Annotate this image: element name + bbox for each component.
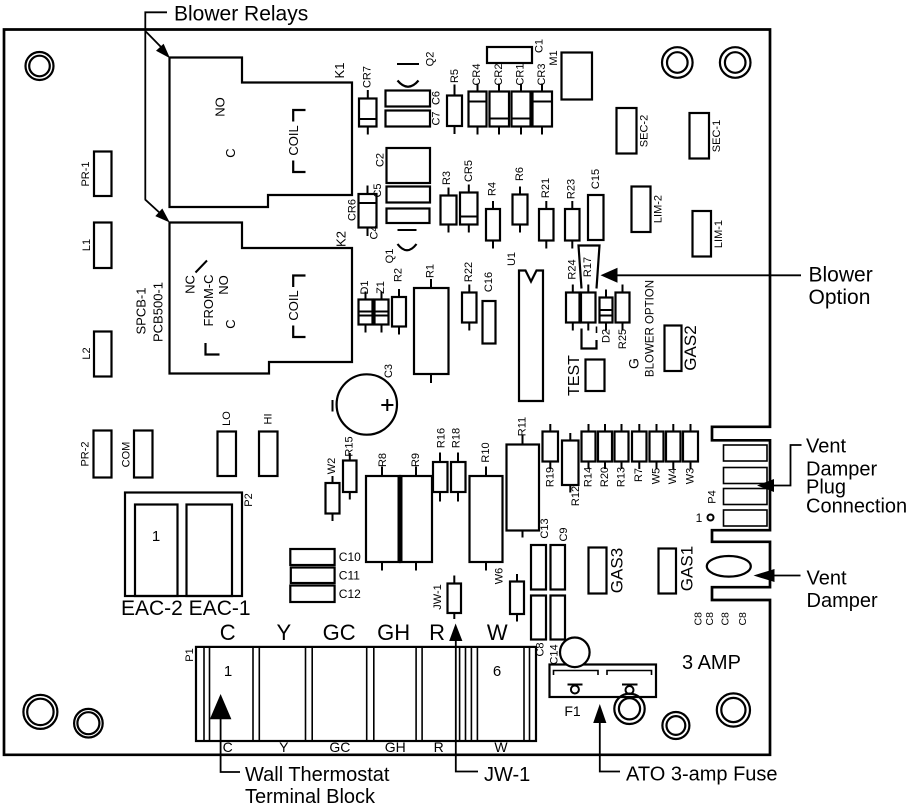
svg-text:SEC-1: SEC-1 [711, 120, 723, 152]
svg-text:COIL: COIL [286, 290, 301, 320]
transistor Q1 [384, 230, 417, 263]
svg-text:GH: GH [385, 739, 406, 755]
svg-text:Damper: Damper [807, 590, 878, 612]
capacitor C7 [386, 111, 443, 127]
capacitor C14 [549, 596, 566, 665]
resistor R2 [392, 268, 406, 335]
svg-text:R21: R21 [540, 178, 552, 198]
svg-text:C11: C11 [339, 569, 360, 583]
svg-text:PR-2: PR-2 [80, 441, 92, 466]
board outline with right-edge slots [4, 30, 770, 755]
svg-text:SEC-2: SEC-2 [639, 115, 651, 147]
svg-text:K2: K2 [334, 231, 349, 247]
svg-text:D1: D1 [359, 280, 371, 294]
capacitor C1 [487, 39, 546, 63]
svg-text:PCB500-1: PCB500-1 [151, 282, 166, 342]
connector LIM-1 [693, 211, 726, 257]
svg-text:GC: GC [329, 739, 350, 755]
svg-text:R17: R17 [582, 257, 594, 277]
svg-text:CR6: CR6 [347, 199, 359, 221]
capacitor C16 [483, 272, 496, 344]
test point TEST [566, 355, 605, 396]
svg-text:C: C [223, 148, 238, 157]
zener Z1 [375, 281, 389, 332]
svg-text:R24: R24 [567, 259, 579, 279]
connector COM [121, 431, 153, 478]
capacitor C12 [290, 586, 361, 603]
svg-text:R12: R12 [570, 486, 582, 506]
svg-text:6: 6 [493, 663, 501, 680]
svg-text:CR4: CR4 [471, 63, 483, 85]
svg-text:COIL: COIL [286, 125, 301, 155]
resistor R19 [543, 424, 559, 487]
svg-text:1: 1 [152, 528, 160, 545]
svg-text:EAC-2 EAC-1: EAC-2 EAC-1 [121, 597, 251, 620]
svg-text:C16: C16 [483, 272, 495, 292]
svg-text:LO: LO [221, 411, 233, 426]
svg-text:R3: R3 [441, 171, 453, 185]
svg-text:C15: C15 [590, 169, 602, 189]
svg-text:W3: W3 [685, 468, 697, 485]
silkscreen SPCB-1 PCB500-1 [134, 282, 166, 342]
svg-text:C8: C8 [704, 612, 716, 626]
svg-text:JW-1: JW-1 [484, 764, 530, 786]
svg-text:C5: C5 [372, 183, 384, 197]
terminal bottom labels c y gc gh r w [223, 739, 509, 755]
svg-text:C1: C1 [534, 39, 546, 53]
svg-text:W: W [487, 620, 508, 645]
svg-text:P4: P4 [707, 490, 719, 503]
svg-text:C8: C8 [720, 612, 732, 626]
svg-text:R: R [434, 739, 444, 755]
connector P4 pin 1 rect [724, 445, 768, 461]
thick shared edge R8/R9 [398, 476, 403, 562]
jumper W6 [494, 568, 525, 622]
svg-text:C: C [220, 620, 236, 645]
svg-text:Z1: Z1 [375, 281, 387, 294]
svg-text:W6: W6 [494, 568, 506, 585]
diode D1 [359, 280, 373, 332]
svg-text:C: C [223, 319, 238, 328]
svg-text:GAS3: GAS3 [608, 548, 627, 593]
diode CR5 [460, 160, 478, 233]
svg-text:Y: Y [279, 739, 289, 755]
pin 1 marker of P4 [696, 511, 714, 525]
diode CR1 [512, 63, 531, 134]
svg-text:C10: C10 [339, 550, 361, 564]
resistor R6 [513, 167, 528, 233]
svg-text:Terminal Block: Terminal Block [245, 786, 376, 808]
jumper JW-1 [432, 576, 461, 620]
svg-text:R18: R18 [451, 428, 463, 448]
svg-text:SPCB-1: SPCB-1 [134, 288, 149, 335]
svg-text:1: 1 [224, 663, 232, 680]
resistor R16 [433, 428, 448, 502]
svg-text:R16: R16 [436, 428, 448, 448]
svg-text:HI: HI [263, 414, 275, 425]
svg-text:COM: COM [121, 442, 133, 468]
resistor R21 [539, 178, 554, 249]
svg-text:3 AMP: 3 AMP [682, 652, 741, 674]
mounting hole bottom-left A [23, 695, 57, 729]
connector GAS3 [589, 548, 627, 594]
resistor R20 [598, 424, 612, 487]
svg-text:Blower Relays: Blower Relays [174, 3, 308, 26]
resistor R11 [507, 417, 540, 538]
svg-text:M1: M1 [548, 50, 560, 65]
diode CR7 [359, 66, 377, 135]
resistor R1 [414, 264, 449, 383]
capacitor C9 [551, 527, 571, 589]
svg-text:GAS1: GAS1 [678, 546, 697, 591]
svg-text:C2: C2 [375, 153, 387, 167]
svg-text:L2: L2 [81, 347, 93, 359]
component M1 [548, 50, 592, 99]
svg-text:R5: R5 [449, 69, 461, 83]
resistor R5 [447, 69, 462, 134]
capacitor C10 [290, 549, 361, 565]
svg-text:NC: NC [183, 275, 198, 294]
resistor R10 [470, 442, 503, 570]
svg-text:W: W [494, 739, 508, 755]
resistor R13 [615, 424, 629, 487]
callout Blower Option [601, 264, 873, 310]
svg-text:C3: C3 [383, 364, 395, 378]
svg-text:NO: NO [213, 97, 228, 117]
resistor R17 (tall, passes behind row) [579, 246, 600, 349]
vent damper hole (oval) [707, 556, 751, 577]
capacitor C15 [588, 169, 604, 240]
svg-text:ATO 3-amp Fuse: ATO 3-amp Fuse [626, 764, 778, 786]
svg-text:K1: K1 [332, 63, 347, 79]
svg-text:R11: R11 [517, 417, 529, 436]
capacitor C13 [531, 518, 551, 589]
connector L1 [81, 223, 112, 269]
connector GAS2 [665, 325, 701, 371]
svg-text:Connection: Connection [806, 496, 907, 518]
resistor R25 [616, 285, 630, 350]
svg-text:BLOWER OPTION: BLOWER OPTION [645, 280, 657, 377]
svg-text:C6: C6 [431, 91, 443, 105]
mounting hole bottom-left B [74, 709, 103, 738]
svg-text:CR3: CR3 [536, 63, 548, 85]
diode CR3 [533, 63, 553, 134]
connector P4 pin 2 rect [724, 468, 768, 484]
hole over fuse corner [560, 638, 590, 668]
resistor R7 [632, 424, 647, 482]
relay K1 [170, 58, 353, 208]
connector LIM-2 [632, 187, 665, 233]
diode CR2 [490, 63, 510, 134]
diode CR6 [347, 186, 377, 237]
svg-text:R20: R20 [599, 467, 611, 487]
mounting hole top-right B [720, 47, 751, 78]
mounting hole bottom-right B [662, 712, 689, 739]
svg-text:R13: R13 [616, 467, 628, 487]
IC U1 [506, 252, 543, 401]
callout Blower Relays [145, 3, 308, 223]
svg-text:W2: W2 [326, 458, 338, 475]
svg-text:W5: W5 [651, 468, 663, 485]
svg-text:P2: P2 [243, 493, 255, 506]
svg-text:TEST: TEST [566, 355, 583, 396]
svg-text:Vent: Vent [806, 436, 846, 458]
svg-text:R6: R6 [514, 167, 526, 181]
connector PR-2 [80, 431, 112, 478]
connector PR-1 [80, 152, 112, 197]
connector LO [218, 411, 237, 476]
resistor R4 [486, 182, 500, 249]
resistor R12 [562, 433, 582, 506]
callout Wall Thermostat Terminal Block [210, 694, 390, 808]
svg-text:R1: R1 [425, 264, 437, 278]
connector P4 pin 4 rect [724, 510, 768, 526]
mounting hole top-right A [662, 47, 693, 78]
capacitor C2 [375, 148, 431, 183]
svg-text:C14: C14 [549, 644, 561, 664]
svg-text:Q2: Q2 [425, 52, 437, 67]
svg-text:Vent: Vent [807, 568, 847, 590]
callout Vent Damper [754, 568, 878, 613]
svg-text:Option: Option [809, 286, 871, 309]
svg-text:F1: F1 [564, 703, 581, 719]
svg-text:Wall Thermostat: Wall Thermostat [245, 764, 390, 786]
capacitor C11 [291, 568, 360, 584]
svg-text:P1: P1 [184, 648, 196, 661]
jumper W4 [666, 424, 681, 484]
svg-text:C8: C8 [693, 612, 705, 626]
svg-text:R10: R10 [480, 442, 492, 462]
svg-text:CR2: CR2 [493, 63, 505, 85]
svg-text:C13: C13 [539, 518, 551, 538]
svg-text:W4: W4 [667, 468, 679, 485]
svg-text:G: G [626, 358, 642, 369]
svg-text:CR1: CR1 [515, 63, 527, 85]
connector P4 pin 3 rect [724, 489, 768, 505]
svg-text:R14: R14 [583, 467, 595, 487]
jumper W2 [326, 458, 340, 521]
resistor R18 [451, 428, 466, 502]
capacitor C5 [372, 183, 430, 202]
svg-text:R7: R7 [633, 468, 645, 482]
svg-text:R4: R4 [487, 182, 499, 196]
resistor R24 [566, 259, 580, 330]
mounting hole bottom-right A [614, 694, 644, 724]
svg-text:R23: R23 [566, 179, 578, 199]
diode CR4 [469, 63, 487, 134]
terminal block P1 [184, 647, 536, 741]
svg-text:C: C [223, 739, 233, 755]
resistor R15 [343, 436, 357, 499]
jumper W3 [683, 424, 698, 484]
capacitor C8 [531, 596, 547, 657]
fuse F1 [550, 665, 657, 720]
svg-text:CR7: CR7 [362, 66, 374, 88]
svg-text:GC: GC [323, 620, 356, 645]
mounting hole bottom-right C [717, 693, 750, 726]
svg-text:R2: R2 [393, 268, 405, 282]
terminal top labels C Y GC GH R W [220, 620, 508, 645]
svg-text:FROM-C: FROM-C [201, 275, 216, 327]
capacitor C6 [386, 91, 443, 107]
capacitor C4 [369, 209, 430, 240]
connector L2 [81, 332, 112, 377]
svg-text:C8: C8 [737, 612, 749, 626]
svg-text:R25: R25 [617, 329, 629, 349]
svg-text:GH: GH [377, 620, 410, 645]
callout ATO 3-amp Fuse [593, 704, 777, 786]
resistor R14 [582, 424, 596, 487]
jumper W5 [650, 424, 664, 484]
svg-text:R22: R22 [463, 262, 475, 282]
transistor Q2 [397, 52, 437, 87]
svg-text:R9: R9 [410, 453, 422, 467]
connector SEC-1 [690, 113, 724, 159]
diode D2 [600, 290, 613, 344]
svg-text:L1: L1 [81, 239, 93, 251]
svg-text:C9: C9 [558, 527, 570, 541]
callout Vent Damper Plug Connection [757, 436, 907, 518]
resistor R23 [565, 179, 580, 249]
svg-text:LIM-1: LIM-1 [713, 220, 725, 248]
svg-text:R19: R19 [545, 467, 557, 487]
relay K2 [170, 223, 353, 374]
connector HI [259, 414, 278, 477]
svg-text:U1: U1 [506, 252, 518, 266]
connector GAS1 [659, 546, 697, 594]
resistor R3 [441, 171, 457, 233]
svg-text:PR-1: PR-1 [80, 161, 92, 186]
svg-text:GAS2: GAS2 [681, 325, 700, 370]
resistor R9 [400, 453, 432, 571]
svg-text:CR5: CR5 [463, 160, 475, 182]
mounting hole top-left [26, 52, 54, 80]
svg-text:R8: R8 [377, 453, 389, 467]
svg-text:Y: Y [276, 620, 291, 645]
svg-text:D2: D2 [601, 329, 613, 343]
svg-text:1: 1 [696, 511, 703, 525]
connector SEC-2 [617, 108, 651, 154]
svg-text:R15: R15 [344, 436, 356, 456]
svg-text:NO: NO [216, 275, 231, 295]
svg-text:Q1: Q1 [384, 249, 396, 264]
svg-text:Blower: Blower [809, 264, 873, 287]
svg-text:JW-1: JW-1 [432, 584, 444, 609]
connector P2 with cells EAC-2 EAC-1 [125, 493, 255, 597]
resistor R22 [462, 262, 477, 331]
svg-text:LIM-2: LIM-2 [653, 195, 665, 223]
svg-text:C12: C12 [339, 587, 361, 601]
svg-text:R: R [429, 620, 445, 645]
resistor R8 [366, 453, 400, 571]
capacitor C3 (electrolytic) [333, 364, 397, 435]
callout JW-1 [449, 624, 530, 787]
svg-text:C7: C7 [431, 111, 443, 125]
